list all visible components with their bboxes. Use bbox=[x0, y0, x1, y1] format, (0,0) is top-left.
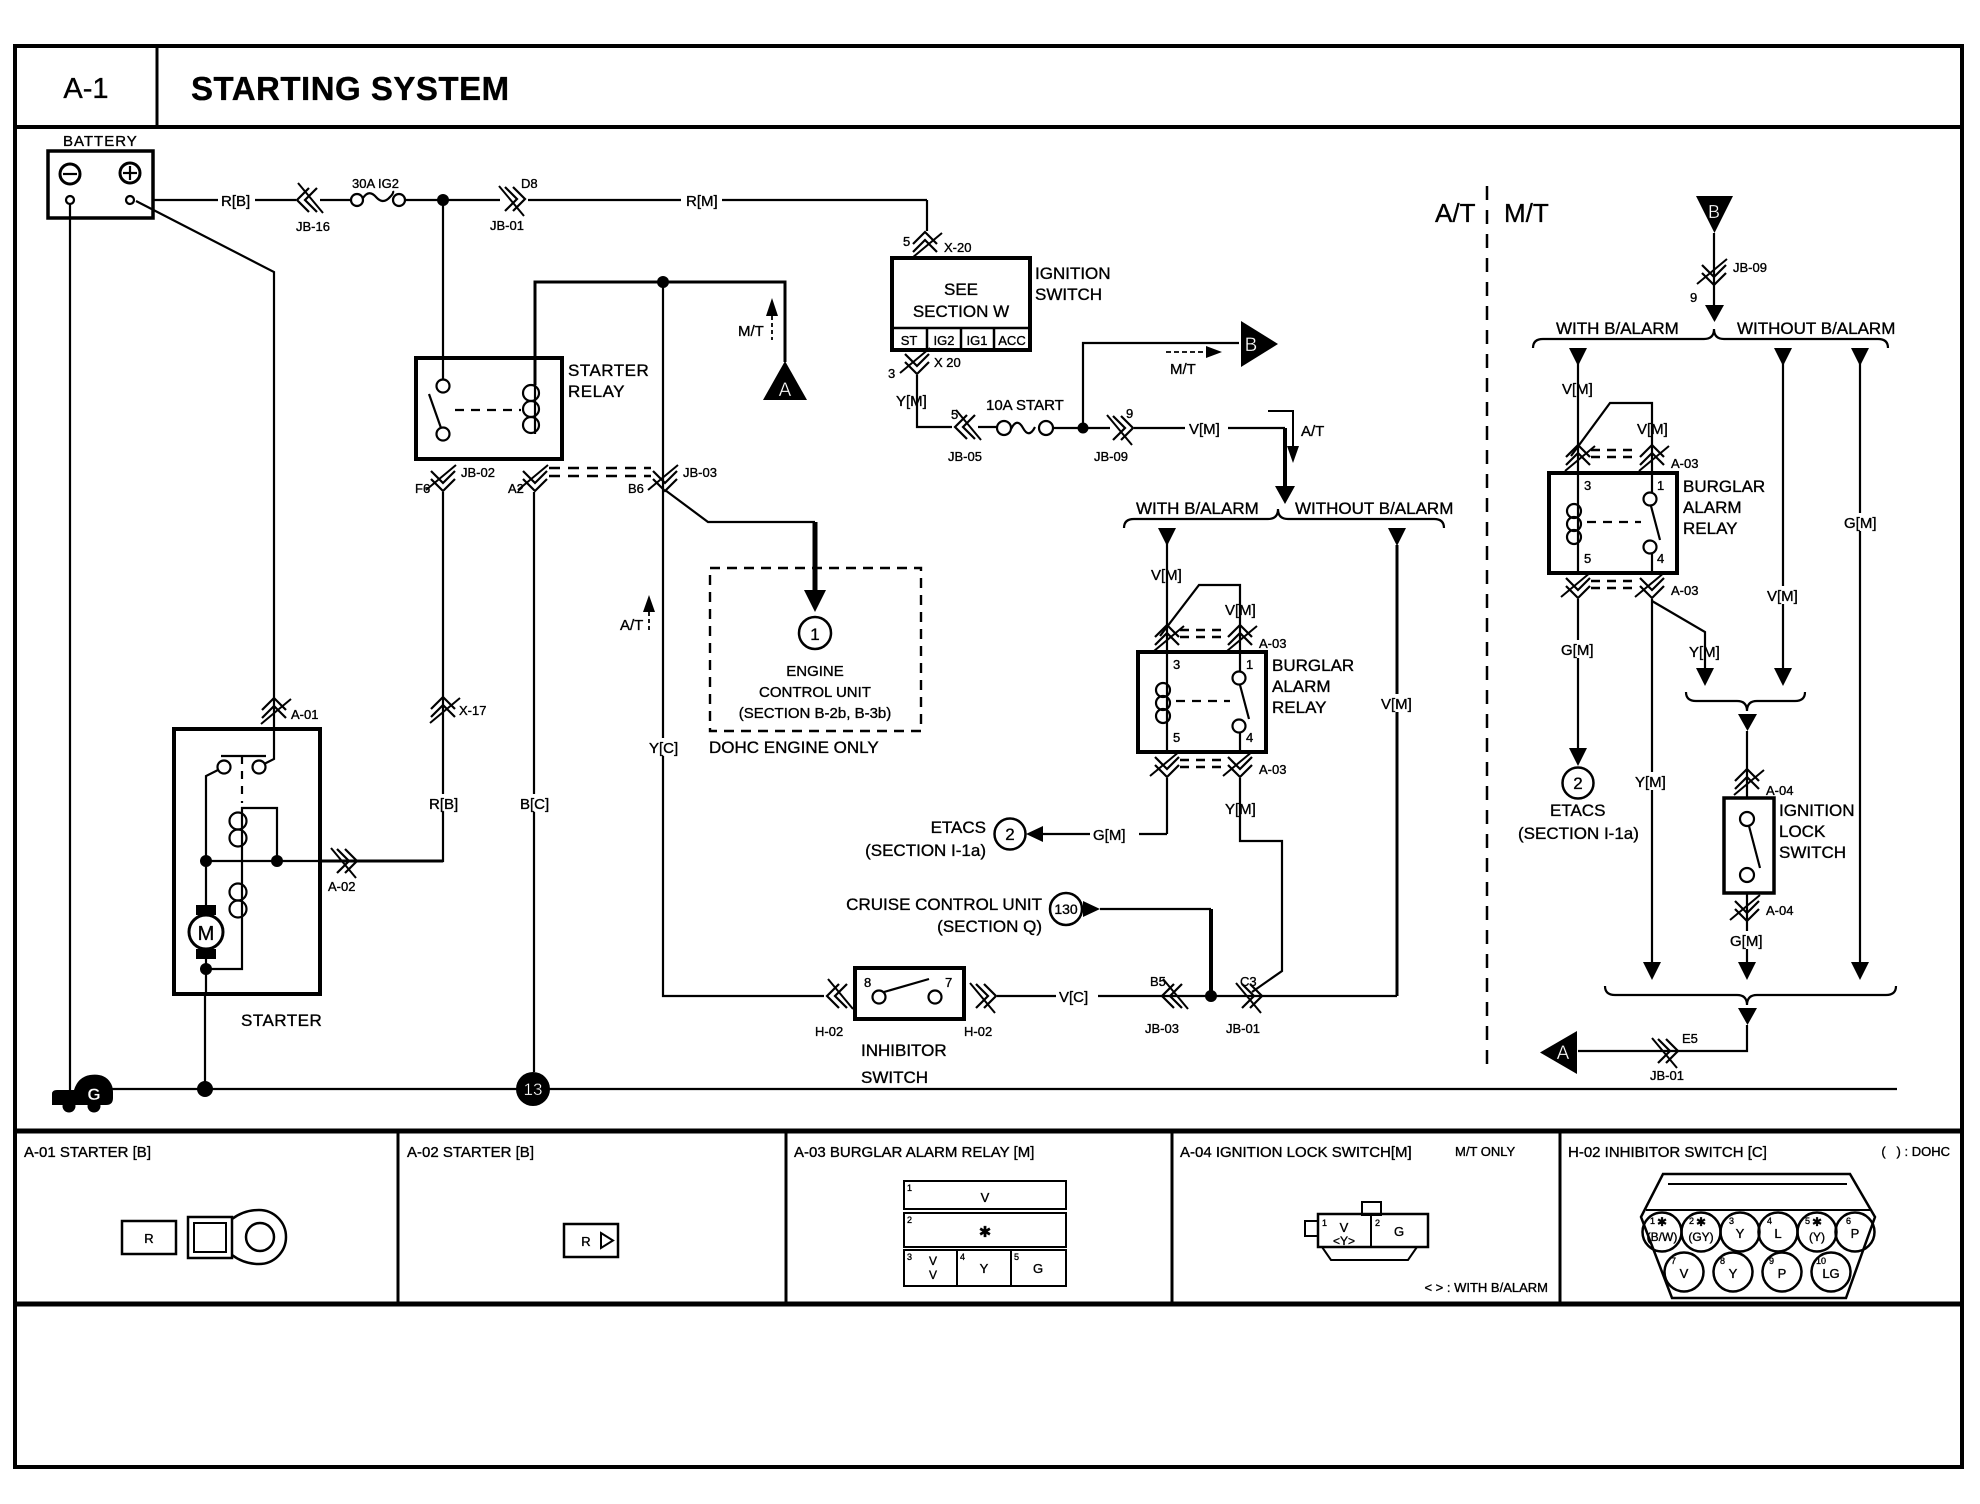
svg-text:X-17: X-17 bbox=[459, 703, 486, 718]
svg-text:8: 8 bbox=[1720, 1256, 1725, 1266]
ETACS (SECTION I-1a) with node 2 (A/T) bbox=[865, 818, 1167, 860]
wire V[M] without branch down to small brace bbox=[1782, 363, 1784, 668]
svg-text:7: 7 bbox=[1671, 1256, 1676, 1266]
svg-text:4: 4 bbox=[1246, 730, 1253, 745]
svg-text:4: 4 bbox=[960, 1252, 965, 1262]
node (arrow Y[M] into big brace) bbox=[1643, 962, 1661, 980]
svg-text:✱: ✱ bbox=[979, 1224, 992, 1241]
svg-text:ETACS: ETACS bbox=[931, 818, 986, 837]
connector X-17 bbox=[430, 697, 486, 723]
label A/T with bracket arrow (annotation) bbox=[1268, 411, 1324, 463]
svg-text:G[M]: G[M] bbox=[1561, 642, 1594, 659]
svg-text:C3: C3 bbox=[1240, 974, 1257, 989]
svg-text:V: V bbox=[1680, 1266, 1689, 1281]
svg-text:JB-09: JB-09 bbox=[1094, 449, 1128, 464]
wire B6 diagonal to ECU feed bbox=[665, 490, 815, 522]
svg-text:10: 10 bbox=[1816, 1256, 1826, 1266]
svg-text:WITHOUT B/ALARM: WITHOUT B/ALARM bbox=[1737, 319, 1895, 338]
svg-text:9: 9 bbox=[1126, 406, 1133, 421]
connector view H-02 (10-pin) bbox=[1641, 1174, 1875, 1298]
wire A/T relay pin3 branch bbox=[1166, 543, 1168, 652]
svg-text:ACC: ACC bbox=[998, 333, 1025, 348]
label G[M] (M/T left) bbox=[1560, 640, 1597, 659]
svg-text:H-02: H-02 bbox=[815, 1024, 843, 1039]
brace small merge (M/T) bbox=[1686, 692, 1805, 711]
svg-text:8: 8 bbox=[864, 975, 871, 990]
svg-text:WITH B/ALARM: WITH B/ALARM bbox=[1136, 499, 1259, 518]
svg-text:(SECTION I-1a): (SECTION I-1a) bbox=[1518, 824, 1639, 843]
svg-text:Y[M]: Y[M] bbox=[1225, 801, 1256, 818]
svg-text:JB-09: JB-09 bbox=[1733, 260, 1767, 275]
node B (M/T entry, down triangle) bbox=[1696, 196, 1733, 233]
svg-text:✱: ✱ bbox=[1812, 1215, 1822, 1229]
node 13 bbox=[516, 1072, 550, 1106]
svg-text:R[M]: R[M] bbox=[686, 193, 718, 210]
svg-text:JB-16: JB-16 bbox=[296, 219, 330, 234]
svg-text:P: P bbox=[1851, 1226, 1860, 1241]
title bar bbox=[15, 46, 1962, 127]
wire crossover to pin 1 bbox=[1160, 585, 1240, 652]
connector JB-09 pin 9 bbox=[1094, 406, 1133, 464]
connector A-04 upper bbox=[1734, 769, 1793, 798]
svg-text:A-04 IGNITION LOCK SWITCH[M]: A-04 IGNITION LOCK SWITCH[M] bbox=[1180, 1144, 1412, 1161]
node (arrowhead into A/T brace) bbox=[1275, 486, 1295, 504]
svg-text:1: 1 bbox=[907, 1183, 912, 1193]
starter STARTER bbox=[174, 729, 322, 1030]
svg-text:H-02 INHIBITOR SWITCH [C]: H-02 INHIBITOR SWITCH [C] bbox=[1568, 1144, 1767, 1161]
node branch arrow 3 (M/T without G) bbox=[1851, 348, 1869, 366]
connector A2 JB-03 bbox=[508, 465, 548, 496]
svg-text:V[M]: V[M] bbox=[1637, 421, 1668, 438]
svg-text:5: 5 bbox=[1805, 1216, 1810, 1226]
svg-text:JB-03: JB-03 bbox=[683, 465, 717, 480]
svg-text:ENGINE: ENGINE bbox=[786, 663, 844, 680]
wire starter M to ground bus bbox=[204, 994, 206, 1089]
label Y[M] (M/T mid) bbox=[1634, 772, 1670, 791]
svg-text:WITHOUT B/ALARM: WITHOUT B/ALARM bbox=[1295, 499, 1453, 518]
svg-text:SECTION W: SECTION W bbox=[913, 302, 1009, 321]
connector A-03 lower pair (A/T) bbox=[1150, 751, 1286, 777]
node branch arrow WITHOUT (A/T) bbox=[1388, 528, 1406, 546]
label IGNITION SWITCH bbox=[1035, 264, 1111, 304]
svg-text:A-03: A-03 bbox=[1671, 583, 1698, 598]
node (junction dot on bus at starter) bbox=[197, 1081, 213, 1097]
label Y[C] bbox=[648, 738, 680, 757]
wire V[C] from inhibitor to V[M] riser bbox=[997, 545, 1397, 996]
svg-text:BURGLAR: BURGLAR bbox=[1683, 477, 1765, 496]
svg-text:RELAY: RELAY bbox=[1683, 519, 1738, 538]
svg-text:SEE: SEE bbox=[944, 280, 978, 299]
svg-text:RELAY: RELAY bbox=[568, 382, 625, 401]
brace M/T alarm split bbox=[1533, 329, 1888, 348]
svg-text:WITH B/ALARM: WITH B/ALARM bbox=[1556, 319, 1679, 338]
connector X 20 pin 3 bbox=[888, 348, 961, 381]
wire M/T pin3 branch bbox=[1577, 363, 1579, 473]
svg-text:G[M]: G[M] bbox=[1093, 827, 1126, 844]
svg-text:30A IG2: 30A IG2 bbox=[352, 176, 399, 191]
svg-text:CRUISE CONTROL UNIT: CRUISE CONTROL UNIT bbox=[846, 895, 1042, 914]
connector view A-01 (R ring terminal) bbox=[122, 1210, 286, 1264]
connector A-03 upper pair (A/T) bbox=[1154, 625, 1286, 651]
svg-text:(SECTION I-1a): (SECTION I-1a) bbox=[865, 841, 986, 860]
wire Y[C] vertical from junction to inhibitor bbox=[663, 282, 824, 996]
svg-text:JB-01: JB-01 bbox=[1650, 1068, 1684, 1083]
wire B down to brace bbox=[1713, 233, 1715, 305]
relay BURGLAR ALARM RELAY (M/T) bbox=[1549, 473, 1765, 573]
wire ECU arrow (thick) bbox=[804, 522, 826, 612]
svg-text:IGNITION: IGNITION bbox=[1035, 264, 1111, 283]
node (junction cruise tap) bbox=[1205, 990, 1217, 1002]
svg-text:D8: D8 bbox=[521, 176, 538, 191]
svg-text:B: B bbox=[1708, 202, 1720, 222]
ground bus wire bbox=[110, 1088, 1897, 1090]
connector JB-09 pin 9 (M/T) bbox=[1690, 259, 1767, 305]
svg-text:ST: ST bbox=[901, 333, 918, 348]
svg-text:V: V bbox=[929, 1254, 937, 1268]
fuse 10A START bbox=[978, 397, 1110, 435]
svg-text:A-01 STARTER [B]: A-01 STARTER [B] bbox=[24, 1144, 151, 1161]
node B (right triangle) bbox=[1241, 321, 1278, 367]
wire A2 coil pin down B[C] to node 13 bbox=[533, 492, 535, 1072]
svg-text:B6: B6 bbox=[628, 481, 644, 496]
svg-text:V[C]: V[C] bbox=[1059, 989, 1088, 1006]
label V[M] (M/T without riser) bbox=[1766, 586, 1802, 605]
ground G (car body ground symbol) bbox=[52, 1075, 113, 1113]
svg-text:M/T ONLY: M/T ONLY bbox=[1455, 1144, 1516, 1159]
connector D8 JB-01 bbox=[490, 176, 538, 233]
svg-text:3: 3 bbox=[1729, 1216, 1734, 1226]
wire pin4 straight down Y[M] (M/T) bbox=[1651, 599, 1653, 962]
svg-text:Y[M]: Y[M] bbox=[1689, 644, 1720, 661]
svg-text:IG1: IG1 bbox=[967, 333, 988, 348]
svg-text:G: G bbox=[1033, 1261, 1043, 1276]
svg-text:2: 2 bbox=[1573, 774, 1582, 793]
connector A-03 upper pair (M/T) bbox=[1565, 445, 1698, 471]
svg-text:A/T: A/T bbox=[1301, 423, 1324, 440]
svg-text:6: 6 bbox=[1846, 1216, 1851, 1226]
svg-text:13: 13 bbox=[524, 1080, 543, 1099]
svg-text:JB-01: JB-01 bbox=[490, 218, 524, 233]
svg-text:1: 1 bbox=[1650, 1216, 1655, 1226]
svg-text:V[M]: V[M] bbox=[1189, 421, 1220, 438]
node (arrowhead into M/T brace) bbox=[1705, 305, 1724, 322]
svg-text:2: 2 bbox=[1005, 825, 1014, 844]
svg-text:A-03 BURGLAR ALARM RELAY [M]: A-03 BURGLAR ALARM RELAY [M] bbox=[794, 1144, 1034, 1161]
connector E5 JB-01 bbox=[1650, 1031, 1698, 1083]
svg-text:SWITCH: SWITCH bbox=[1779, 843, 1846, 862]
connector JB-16 bbox=[296, 183, 330, 234]
svg-text:10A START: 10A START bbox=[986, 397, 1064, 414]
node (arrow below big brace) bbox=[1738, 1008, 1757, 1025]
svg-text:R[B]: R[B] bbox=[221, 193, 250, 210]
svg-text:JB-03: JB-03 bbox=[1145, 1021, 1179, 1036]
svg-text:JB-05: JB-05 bbox=[948, 449, 982, 464]
node A (up triangle) bbox=[763, 361, 807, 401]
wire lock switch down G[M] bbox=[1746, 893, 1748, 962]
svg-text:Y: Y bbox=[1729, 1266, 1738, 1281]
svg-text:5: 5 bbox=[1584, 551, 1591, 566]
svg-text:Y[C]: Y[C] bbox=[649, 740, 678, 757]
svg-text:SWITCH: SWITCH bbox=[1035, 285, 1102, 304]
svg-text:B[C]: B[C] bbox=[520, 796, 549, 813]
svg-text:LG: LG bbox=[1822, 1266, 1839, 1281]
label M/T right arrow (annotation) bbox=[1166, 346, 1222, 378]
svg-text:130: 130 bbox=[1054, 901, 1078, 917]
svg-text:1: 1 bbox=[1657, 478, 1664, 493]
svg-text:ALARM: ALARM bbox=[1272, 677, 1331, 696]
cruise control unit CRUISE CONTROL UNIT (SECTION Q) with node 130 bbox=[846, 893, 1211, 996]
svg-text:P: P bbox=[1778, 1266, 1787, 1281]
svg-text:X-20: X-20 bbox=[944, 240, 971, 255]
label R[B] vertical wire bbox=[428, 794, 460, 813]
svg-text:3: 3 bbox=[1173, 657, 1180, 672]
svg-text:A-01: A-01 bbox=[291, 707, 318, 722]
wire ST pin down to fuse 10A bbox=[917, 375, 952, 427]
wire funnel down to A-04 bbox=[1746, 731, 1748, 798]
wire battery negative down to ground bbox=[69, 204, 71, 1092]
svg-text:3: 3 bbox=[1584, 478, 1591, 493]
wire merge down and left to A triangle bbox=[1578, 1025, 1747, 1051]
svg-text:A-03: A-03 bbox=[1259, 762, 1286, 777]
node (junction at starter relay feed) bbox=[437, 194, 449, 206]
relay BURGLAR ALARM RELAY (A/T) bbox=[1138, 652, 1354, 752]
connector B6 JB-03 bbox=[628, 465, 717, 496]
svg-text:M/T: M/T bbox=[1504, 198, 1549, 228]
connector JB-05 pin 5 bbox=[948, 407, 982, 464]
connector X-20 pin 5 bbox=[903, 232, 971, 258]
svg-text:BATTERY: BATTERY bbox=[63, 133, 138, 150]
svg-text:(GY): (GY) bbox=[1688, 1230, 1713, 1244]
svg-text:A/T: A/T bbox=[620, 617, 643, 634]
svg-text:A-02 STARTER [B]: A-02 STARTER [B] bbox=[407, 1144, 534, 1161]
wire pin4 diagonal branch to funnel bbox=[1652, 601, 1705, 668]
node (arrow V[M] into small brace) bbox=[1774, 668, 1792, 686]
wire battery positive diagonal to A-01 drop bbox=[136, 201, 274, 729]
wire starter output A-02 bbox=[320, 860, 443, 863]
connector F6 JB-02 bbox=[415, 465, 495, 496]
wire pins 3/1 through relay bbox=[1167, 652, 1240, 752]
svg-text:X 20: X 20 bbox=[934, 355, 961, 370]
node branch arrow WITH (A/T) bbox=[1158, 528, 1176, 546]
wire R[B] fuse feed bbox=[153, 200, 927, 231]
relay STARTER RELAY bbox=[416, 358, 649, 459]
svg-text:DOHC ENGINE ONLY: DOHC ENGINE ONLY bbox=[709, 738, 879, 757]
wire dashed pair A2 to B6 bbox=[549, 468, 651, 476]
svg-text:A-04: A-04 bbox=[1766, 903, 1793, 918]
svg-text:IG2: IG2 bbox=[934, 333, 955, 348]
wire pins through M/T relay bbox=[1578, 473, 1652, 573]
svg-text:B5: B5 bbox=[1150, 974, 1166, 989]
svg-text:L: L bbox=[1774, 1226, 1781, 1241]
svg-text:1: 1 bbox=[810, 625, 819, 644]
label M/T with up arrow (annotation) bbox=[738, 298, 778, 340]
svg-text:RELAY: RELAY bbox=[1272, 698, 1327, 717]
svg-text:3: 3 bbox=[888, 366, 895, 381]
svg-text:E5: E5 bbox=[1682, 1031, 1698, 1046]
svg-text:INHIBITOR: INHIBITOR bbox=[861, 1041, 947, 1060]
svg-text:A-04: A-04 bbox=[1766, 783, 1793, 798]
svg-text:2: 2 bbox=[1689, 1216, 1694, 1226]
ECU ENGINE CONTROL UNIT dashed box bbox=[709, 568, 921, 757]
connector strip frame bbox=[15, 1131, 1962, 1304]
connector B5 JB-03 bbox=[1145, 974, 1188, 1036]
node 1 (circle to ECU) bbox=[799, 617, 831, 649]
wire crossover to pin 1 (M/T) bbox=[1571, 403, 1652, 473]
svg-text:✱: ✱ bbox=[1696, 1215, 1706, 1229]
svg-text:G: G bbox=[87, 1085, 100, 1104]
svg-text:M/T: M/T bbox=[1170, 361, 1196, 378]
svg-text:F6: F6 bbox=[415, 481, 430, 496]
svg-text:R: R bbox=[581, 1234, 590, 1249]
svg-text:(SECTION Q): (SECTION Q) bbox=[937, 917, 1042, 936]
svg-text:M/T: M/T bbox=[738, 323, 764, 340]
label B[C] bbox=[519, 794, 551, 813]
svg-text:H-02: H-02 bbox=[964, 1024, 992, 1039]
svg-text:1: 1 bbox=[1246, 657, 1253, 672]
svg-text:V: V bbox=[981, 1190, 990, 1205]
wire relay coil pin / top horizontal with A-triangle drop bbox=[535, 282, 785, 385]
svg-text:( ) : DOHC: ( ) : DOHC bbox=[1881, 1144, 1950, 1159]
fuse 30A IG2 bbox=[351, 176, 405, 206]
svg-text:A-1: A-1 bbox=[63, 73, 108, 105]
connector view A-02 (R spade) bbox=[564, 1224, 618, 1257]
svg-text:Y[M]: Y[M] bbox=[1635, 774, 1666, 791]
svg-text:5: 5 bbox=[1014, 1252, 1019, 1262]
connector view A-03 (pin table) bbox=[904, 1181, 1066, 1286]
ignition switch box SEE SECTION W bbox=[892, 258, 1030, 350]
node (junction to B triangle) bbox=[1078, 423, 1089, 434]
svg-text:Y: Y bbox=[1736, 1226, 1745, 1241]
svg-text:A-03: A-03 bbox=[1671, 456, 1698, 471]
svg-text:R[B]: R[B] bbox=[429, 796, 458, 813]
battery BATTERY bbox=[48, 133, 153, 218]
svg-text:5: 5 bbox=[1173, 730, 1180, 745]
connector H-02 left bbox=[815, 979, 853, 1039]
svg-text:4: 4 bbox=[1657, 551, 1664, 566]
svg-text:G[M]: G[M] bbox=[1730, 933, 1763, 950]
node (arrow Y[M] into small brace) bbox=[1696, 668, 1714, 686]
wire up to B triangle bbox=[1083, 343, 1239, 428]
svg-text:A-03: A-03 bbox=[1259, 636, 1286, 651]
svg-text:SWITCH: SWITCH bbox=[861, 1068, 928, 1087]
svg-text:2: 2 bbox=[907, 1215, 912, 1225]
svg-text:1: 1 bbox=[1322, 1218, 1327, 1228]
connector view A-04 (2-pin plug) bbox=[1305, 1202, 1428, 1260]
label A/T up arrow (annotation) bbox=[620, 595, 655, 634]
svg-text:R: R bbox=[144, 1231, 153, 1246]
connector H-02 right bbox=[964, 983, 996, 1039]
connector A-04 lower bbox=[1730, 895, 1793, 921]
node (junction Y[C] tap) bbox=[657, 276, 669, 288]
svg-text:LOCK: LOCK bbox=[1779, 822, 1826, 841]
wire pin4 down Y[M] to C3 bbox=[1240, 778, 1282, 992]
svg-text:A-02: A-02 bbox=[328, 879, 355, 894]
wire pin5 down to ETACS G[M] bbox=[1166, 778, 1168, 834]
ignition lock switch IGNITION LOCK SWITCH bbox=[1724, 798, 1855, 893]
svg-text:JB-01: JB-01 bbox=[1226, 1021, 1260, 1036]
wire relay switch pin up to fuse line bbox=[442, 200, 444, 380]
svg-text:CONTROL UNIT: CONTROL UNIT bbox=[759, 684, 871, 701]
svg-text:(SECTION B-2b, B-3b): (SECTION B-2b, B-3b) bbox=[739, 705, 892, 722]
label Y[M] bbox=[894, 391, 930, 410]
svg-text:ALARM: ALARM bbox=[1683, 498, 1742, 517]
svg-text:STARTER: STARTER bbox=[568, 361, 649, 380]
inhibitor switch INHIBITOR SWITCH bbox=[855, 968, 964, 1087]
svg-text:✱: ✱ bbox=[1657, 1215, 1667, 1229]
node (arrow right G[M] into big brace) bbox=[1851, 962, 1869, 980]
brace big merge (M/T) bbox=[1605, 986, 1896, 1005]
svg-text:B: B bbox=[1245, 335, 1258, 356]
wire F6 down through X-17 to A-02 bbox=[320, 492, 443, 861]
label G[M] (lock switch out) bbox=[1729, 931, 1766, 950]
svg-text:A/T: A/T bbox=[1435, 198, 1476, 228]
svg-text:<Y>: <Y> bbox=[1333, 1234, 1355, 1248]
connector A-03 lower pair (M/T) bbox=[1561, 572, 1698, 598]
svg-text:V[M]: V[M] bbox=[1381, 696, 1412, 713]
wire pin5 G[M] down to ETACS (M/T) bbox=[1577, 599, 1579, 749]
svg-text:4: 4 bbox=[1767, 1216, 1772, 1226]
node branch arrow 2 (M/T without V) bbox=[1774, 348, 1792, 366]
svg-text:9: 9 bbox=[1769, 1256, 1774, 1266]
svg-text:A2: A2 bbox=[508, 481, 524, 496]
svg-text:Y[M]: Y[M] bbox=[896, 393, 927, 410]
wire A/T M/T dashed divider bbox=[1486, 186, 1489, 1072]
svg-text:5: 5 bbox=[903, 234, 910, 249]
node (arrow G[M] into big brace) bbox=[1738, 962, 1756, 980]
svg-text:< > : WITH B/ALARM: < > : WITH B/ALARM bbox=[1424, 1280, 1548, 1295]
svg-text:G: G bbox=[1394, 1224, 1404, 1239]
node A (M/T exit, left triangle) bbox=[1540, 1031, 1577, 1074]
node (arrow below small brace) bbox=[1738, 714, 1757, 731]
svg-text:A: A bbox=[779, 380, 792, 401]
svg-text:BURGLAR: BURGLAR bbox=[1272, 656, 1354, 675]
svg-text:2: 2 bbox=[1375, 1218, 1380, 1228]
node branch arrow 1 (M/T with) bbox=[1569, 348, 1587, 366]
wire V[M] to A/T drop bbox=[1134, 428, 1285, 487]
brace A/T alarm split bbox=[1124, 509, 1444, 528]
label V[M] (A/T without-alarm riser) bbox=[1380, 694, 1416, 713]
ETACS (SECTION I-1a) with node 2 (M/T) bbox=[1518, 768, 1639, 844]
node (arrow into ETACS M/T) bbox=[1569, 748, 1587, 766]
svg-text:9: 9 bbox=[1690, 290, 1697, 305]
svg-text:V: V bbox=[929, 1268, 937, 1282]
connector A-01 bbox=[261, 698, 318, 724]
connector A-02 (chevron on starter output) bbox=[328, 848, 357, 894]
svg-text:IGNITION: IGNITION bbox=[1779, 801, 1855, 820]
label G[M] (M/T right riser) bbox=[1843, 513, 1880, 532]
svg-text:(B/W): (B/W) bbox=[1647, 1230, 1678, 1244]
svg-text:V[M]: V[M] bbox=[1225, 602, 1256, 619]
svg-text:M: M bbox=[198, 923, 215, 945]
svg-text:STARTING SYSTEM: STARTING SYSTEM bbox=[191, 70, 510, 107]
svg-text:7: 7 bbox=[945, 975, 952, 990]
svg-text:A: A bbox=[1557, 1043, 1570, 1064]
svg-text:V: V bbox=[1340, 1220, 1349, 1235]
svg-text:Y: Y bbox=[980, 1261, 989, 1276]
svg-text:3: 3 bbox=[907, 1252, 912, 1262]
wire right G[M] branch down (M/T) bbox=[1859, 363, 1861, 962]
svg-text:G[M]: G[M] bbox=[1844, 515, 1877, 532]
svg-text:V[M]: V[M] bbox=[1767, 588, 1798, 605]
svg-text:5: 5 bbox=[951, 407, 958, 422]
svg-text:ETACS: ETACS bbox=[1550, 801, 1605, 820]
connector C3 JB-01 bbox=[1226, 974, 1262, 1036]
svg-text:STARTER: STARTER bbox=[241, 1011, 322, 1030]
svg-text:JB-02: JB-02 bbox=[461, 465, 495, 480]
svg-text:(Y): (Y) bbox=[1809, 1230, 1825, 1244]
